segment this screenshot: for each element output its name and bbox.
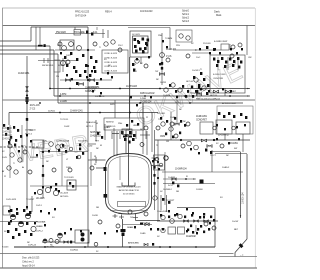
svg-text:3-CS: 3-CS bbox=[168, 185, 173, 187]
svg-text:REV.4: REV.4 bbox=[105, 10, 112, 14]
svg-text:COND RET: COND RET bbox=[196, 120, 208, 122]
svg-text:10-WW-1041: 10-WW-1041 bbox=[70, 110, 83, 113]
svg-text:Appd. 06-14: Appd. 06-14 bbox=[22, 264, 35, 268]
svg-text:PROJ-10.223: PROJ-10.223 bbox=[75, 10, 90, 14]
svg-text:FROM V-101: FROM V-101 bbox=[42, 65, 54, 67]
svg-text:10-TW-1041-AI: 10-TW-1041-AI bbox=[56, 140, 70, 143]
svg-text:10-VG: 10-VG bbox=[58, 65, 64, 67]
svg-text:2"-CS: 2"-CS bbox=[30, 108, 36, 111]
svg-text:PSE: PSE bbox=[158, 35, 163, 37]
svg-text:N2 PURGE: N2 PURGE bbox=[90, 132, 101, 134]
svg-text:10-RF-1051: 10-RF-1051 bbox=[196, 116, 208, 118]
svg-text:SET 4.0: SET 4.0 bbox=[186, 81, 194, 83]
svg-text:10-VP-1023: 10-VP-1023 bbox=[126, 86, 138, 88]
svg-text:10-PL-2: 10-PL-2 bbox=[36, 231, 44, 233]
svg-text:2-DR-11: 2-DR-11 bbox=[48, 111, 56, 113]
svg-text:1-CS: 1-CS bbox=[175, 102, 180, 104]
svg-text:10-JWR-104: 10-JWR-104 bbox=[175, 169, 187, 171]
svg-text:DRAIN: DRAIN bbox=[127, 226, 134, 229]
svg-text:SC-1023: SC-1023 bbox=[132, 34, 141, 36]
svg-text:1"-CS: 1"-CS bbox=[166, 56, 172, 58]
svg-text:CWS/CWR: CWS/CWR bbox=[213, 78, 223, 80]
svg-text:Schd.3: Schd.3 bbox=[182, 20, 190, 23]
svg-text:COND. E-1023: COND. E-1023 bbox=[104, 66, 118, 68]
svg-text:10-AG-104: 10-AG-104 bbox=[86, 121, 96, 124]
svg-text:10-223-02: 10-223-02 bbox=[186, 235, 196, 238]
svg-text:10-JWS: 10-JWS bbox=[163, 95, 171, 97]
svg-text:JACKETED REACTOR: JACKETED REACTOR bbox=[118, 189, 139, 192]
svg-text:10-JWR: 10-JWR bbox=[168, 177, 176, 179]
svg-text:TO VENT: TO VENT bbox=[219, 41, 228, 43]
svg-text:SHT 02-04: SHT 02-04 bbox=[75, 14, 87, 18]
svg-text:FWD 10-223-04 2-CWR-CS: FWD 10-223-04 2-CWR-CS bbox=[196, 99, 220, 101]
svg-text:SET 3.5: SET 3.5 bbox=[210, 95, 218, 97]
svg-text:10-P-1: 10-P-1 bbox=[36, 205, 43, 207]
svg-text:TO CT: TO CT bbox=[210, 155, 217, 157]
svg-text:10-BD-1: 10-BD-1 bbox=[143, 223, 151, 225]
svg-text:P-1023: P-1023 bbox=[2, 247, 9, 249]
svg-text:10-FW-1051: 10-FW-1051 bbox=[18, 73, 30, 75]
svg-text:10-PW-1051: 10-PW-1051 bbox=[88, 87, 100, 89]
svg-text:COND. E-1023: COND. E-1023 bbox=[104, 71, 118, 73]
svg-text:PV-1024: PV-1024 bbox=[203, 43, 211, 45]
svg-text:P-1023A/B: P-1023A/B bbox=[36, 221, 46, 224]
svg-text:FWD: FWD bbox=[110, 104, 115, 106]
svg-text:TO E-1024: TO E-1024 bbox=[190, 93, 201, 95]
svg-text:LIC-1023: LIC-1023 bbox=[36, 198, 45, 200]
svg-text:TO ATM: TO ATM bbox=[165, 37, 172, 40]
svg-text:TI-1023 FC: TI-1023 FC bbox=[78, 141, 88, 143]
svg-text:Dwn. chk 10-223: Dwn. chk 10-223 bbox=[22, 256, 40, 260]
svg-text:2-CWR: 2-CWR bbox=[60, 101, 67, 103]
svg-text:10-BD-2: 10-BD-2 bbox=[222, 167, 230, 169]
svg-text:10 m3 SS316: 10 m3 SS316 bbox=[123, 194, 136, 196]
svg-text:2-JWR: 2-JWR bbox=[140, 98, 147, 100]
svg-text:FO: FO bbox=[52, 217, 55, 219]
svg-text:10-RF: 10-RF bbox=[170, 117, 176, 119]
svg-text:10-XX-103: 10-XX-103 bbox=[2, 139, 13, 141]
svg-text:10-XX-102: 10-XX-102 bbox=[2, 135, 13, 137]
svg-text:4-STM: 4-STM bbox=[60, 94, 66, 96]
svg-text:10-FD-1023: 10-FD-1023 bbox=[140, 9, 153, 13]
svg-text:Chkd. rev 2: Chkd. rev 2 bbox=[22, 260, 34, 264]
svg-text:10-BD: 10-BD bbox=[140, 233, 146, 235]
svg-text:10-WW-1: 10-WW-1 bbox=[30, 157, 39, 159]
svg-text:PG: PG bbox=[56, 76, 59, 78]
svg-text:SET 60%: SET 60% bbox=[60, 196, 68, 198]
svg-text:LG: LG bbox=[133, 64, 136, 66]
svg-text:COND. E-1023: COND. E-1023 bbox=[104, 62, 118, 64]
svg-text:10-DR: 10-DR bbox=[92, 215, 98, 217]
svg-text:VENT: VENT bbox=[133, 125, 139, 127]
svg-text:10-BD-1023: 10-BD-1023 bbox=[157, 211, 168, 213]
svg-text:CWS: CWS bbox=[160, 136, 166, 138]
svg-text:10-WW: 10-WW bbox=[196, 189, 204, 191]
svg-text:TO WWT: TO WWT bbox=[26, 199, 35, 201]
svg-text:LIC-1023: LIC-1023 bbox=[60, 193, 69, 195]
svg-text:PIC-1051: PIC-1051 bbox=[157, 113, 166, 115]
svg-text:AFTERCOOLER: AFTERCOOLER bbox=[222, 102, 237, 105]
svg-text:SET 1.2: SET 1.2 bbox=[86, 126, 94, 128]
svg-text:COND. E-1023: COND. E-1023 bbox=[104, 53, 118, 55]
svg-text:10-BD-104: 10-BD-104 bbox=[242, 192, 245, 204]
svg-text:10-XX-100: 10-XX-100 bbox=[2, 128, 13, 130]
svg-text:10-XX-101: 10-XX-101 bbox=[2, 132, 13, 134]
svg-text:LG: LG bbox=[92, 159, 95, 161]
svg-text:10-C: 10-C bbox=[196, 57, 201, 59]
svg-text:10-JWS-104: 10-JWS-104 bbox=[140, 102, 152, 104]
svg-text:2"-CS-P: 2"-CS-P bbox=[88, 91, 96, 93]
svg-text:NC: NC bbox=[30, 129, 34, 132]
svg-text:FWD 10-223-02: FWD 10-223-02 bbox=[140, 93, 155, 95]
svg-text:10-CWS-12: 10-CWS-12 bbox=[218, 135, 230, 137]
svg-text:ATM BLEED: ATM BLEED bbox=[128, 242, 139, 245]
svg-text:10-J: 10-J bbox=[133, 71, 137, 73]
svg-text:FO: FO bbox=[220, 197, 223, 199]
svg-text:TO FLARE: TO FLARE bbox=[74, 31, 85, 34]
svg-text:TO TK-11: TO TK-11 bbox=[60, 119, 69, 121]
svg-text:SPARE: SPARE bbox=[36, 225, 43, 228]
svg-text:FV-1051: FV-1051 bbox=[230, 143, 239, 145]
svg-text:10-DR-11: 10-DR-11 bbox=[70, 250, 79, 252]
svg-text:TO P-1023: TO P-1023 bbox=[64, 177, 74, 179]
svg-text:PSV-1023: PSV-1023 bbox=[56, 31, 66, 34]
svg-text:PSH: PSH bbox=[118, 123, 123, 125]
svg-text:E-1024: E-1024 bbox=[214, 41, 221, 43]
svg-text:E-1024 COND: E-1024 COND bbox=[213, 74, 226, 76]
svg-text:10-JWR-2: 10-JWR-2 bbox=[163, 189, 173, 191]
svg-text:Dash.: Dash. bbox=[214, 10, 220, 14]
svg-text:PSV: PSV bbox=[176, 45, 181, 47]
svg-text:TO WWT: TO WWT bbox=[166, 200, 175, 202]
svg-text:NAME OF VESSEL R-1023: NAME OF VESSEL R-1023 bbox=[117, 186, 142, 189]
svg-text:FO: FO bbox=[104, 59, 107, 61]
svg-text:10-PL-24: 10-PL-24 bbox=[28, 245, 37, 247]
svg-text:N4 N3 N2: N4 N3 N2 bbox=[106, 122, 115, 124]
svg-text:Mark.: Mark. bbox=[216, 13, 222, 17]
svg-text:10-PL-1023: 10-PL-1023 bbox=[6, 199, 17, 201]
